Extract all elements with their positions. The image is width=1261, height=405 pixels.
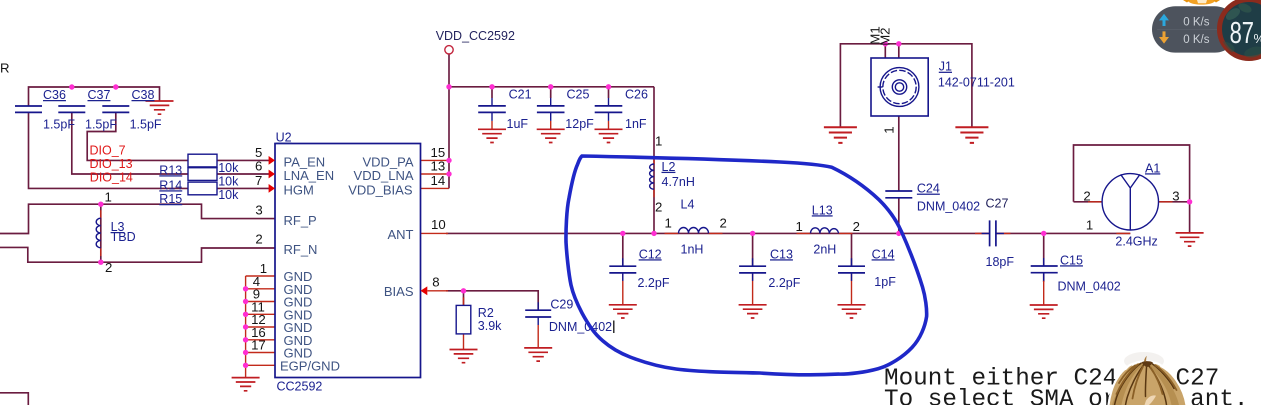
svg-text:1: 1 xyxy=(665,215,672,230)
svg-text:10: 10 xyxy=(431,217,446,232)
svg-text:18pF: 18pF xyxy=(986,255,1015,269)
svg-text:1: 1 xyxy=(882,126,897,133)
svg-text:U2: U2 xyxy=(276,131,292,145)
svg-text:M2: M2 xyxy=(878,27,893,45)
svg-text:C27: C27 xyxy=(986,196,1009,210)
svg-text:DNM_0402: DNM_0402 xyxy=(917,200,980,214)
svg-text:C13: C13 xyxy=(770,247,793,261)
svg-text:1nH: 1nH xyxy=(681,243,704,257)
svg-text:12pF: 12pF xyxy=(565,117,594,131)
svg-text:R14: R14 xyxy=(159,178,182,192)
svg-text:1: 1 xyxy=(105,190,112,205)
svg-text:4.7nH: 4.7nH xyxy=(662,175,695,189)
svg-text:2nH: 2nH xyxy=(813,243,836,257)
svg-text:1pF: 1pF xyxy=(874,275,896,289)
svg-text:DIO_14: DIO_14 xyxy=(90,170,133,184)
svg-text:DNM_0402: DNM_0402 xyxy=(1058,279,1121,293)
svg-text:C14: C14 xyxy=(872,247,895,261)
svg-text:C26: C26 xyxy=(625,87,648,101)
svg-text:BIAS: BIAS xyxy=(384,284,414,299)
svg-text:2.2pF: 2.2pF xyxy=(638,276,670,290)
svg-text:1: 1 xyxy=(796,219,803,234)
svg-text:RF_P: RF_P xyxy=(284,213,317,228)
svg-text:2: 2 xyxy=(853,219,860,234)
svg-text:1.5pF: 1.5pF xyxy=(85,118,117,132)
svg-text:LNA_EN: LNA_EN xyxy=(284,168,335,183)
svg-text:L2: L2 xyxy=(662,160,676,174)
svg-text:10k: 10k xyxy=(218,161,239,175)
svg-text:13: 13 xyxy=(431,159,446,174)
svg-text:1: 1 xyxy=(655,134,662,149)
svg-text:2.4GHz: 2.4GHz xyxy=(1115,234,1157,248)
svg-text:C24: C24 xyxy=(917,182,940,196)
svg-text:1.5pF: 1.5pF xyxy=(130,118,162,132)
svg-text:C15: C15 xyxy=(1060,253,1083,267)
svg-text:7: 7 xyxy=(255,173,262,188)
svg-text:6: 6 xyxy=(255,159,262,174)
svg-text:A1: A1 xyxy=(1145,161,1160,175)
svg-text:%: % xyxy=(1254,31,1261,46)
svg-text:L13: L13 xyxy=(812,203,833,217)
svg-text:HGM: HGM xyxy=(284,183,314,198)
svg-text:87: 87 xyxy=(1230,15,1254,49)
svg-text:C37: C37 xyxy=(88,88,111,102)
svg-text:1uF: 1uF xyxy=(507,117,529,131)
svg-text:R15: R15 xyxy=(159,192,182,206)
svg-text:L4: L4 xyxy=(681,198,695,212)
svg-text:1: 1 xyxy=(260,261,267,276)
svg-text:C36: C36 xyxy=(43,88,66,102)
svg-text:C38: C38 xyxy=(132,88,155,102)
svg-text:8: 8 xyxy=(432,275,439,290)
svg-text:3.9k: 3.9k xyxy=(478,319,502,333)
svg-text:C25: C25 xyxy=(567,87,590,101)
svg-text:C12: C12 xyxy=(639,247,662,261)
svg-text:2: 2 xyxy=(720,215,727,230)
svg-text:CC2592: CC2592 xyxy=(277,380,323,394)
svg-text:VDD_BIAS: VDD_BIAS xyxy=(348,183,413,198)
svg-text:10k: 10k xyxy=(218,175,239,189)
svg-text:DIO_13: DIO_13 xyxy=(90,157,133,171)
svg-text:3: 3 xyxy=(1172,188,1179,203)
svg-text:R2: R2 xyxy=(478,306,494,320)
svg-text:2: 2 xyxy=(655,200,662,215)
svg-text:17: 17 xyxy=(251,338,266,353)
svg-text:2.2pF: 2.2pF xyxy=(768,276,800,290)
svg-text:14: 14 xyxy=(431,173,446,188)
svg-text:DIO_7: DIO_7 xyxy=(90,144,126,158)
svg-text:DNM_0402: DNM_0402 xyxy=(549,320,612,334)
svg-text:1: 1 xyxy=(1086,217,1093,232)
svg-text:VDD_CC2592: VDD_CC2592 xyxy=(436,29,515,43)
svg-text:J1: J1 xyxy=(939,60,952,74)
svg-text:EGP/GND: EGP/GND xyxy=(280,359,340,374)
svg-text:1.5pF: 1.5pF xyxy=(43,118,75,132)
svg-text:1nF: 1nF xyxy=(625,117,647,131)
svg-text:2: 2 xyxy=(105,260,112,275)
svg-text:C21: C21 xyxy=(509,87,532,101)
svg-text:10k: 10k xyxy=(218,188,239,202)
svg-text:3: 3 xyxy=(255,202,262,217)
svg-text:0 K/s: 0 K/s xyxy=(1183,34,1209,46)
svg-text:RF_N: RF_N xyxy=(284,242,318,257)
svg-text:To select SMA or PCB ant.: To select SMA or PCB ant. xyxy=(884,386,1249,405)
svg-text:ANT: ANT xyxy=(388,227,414,242)
svg-text:0 K/s: 0 K/s xyxy=(1183,17,1209,29)
svg-text:2: 2 xyxy=(255,231,262,246)
svg-text:2: 2 xyxy=(1083,188,1090,203)
svg-text:VDD_LNA: VDD_LNA xyxy=(354,168,414,183)
svg-text:142-0711-201: 142-0711-201 xyxy=(938,76,1015,90)
svg-text:R13: R13 xyxy=(159,163,182,177)
svg-text:R: R xyxy=(0,61,10,76)
svg-text:C29: C29 xyxy=(550,298,573,312)
svg-text:TBD: TBD xyxy=(111,230,136,244)
